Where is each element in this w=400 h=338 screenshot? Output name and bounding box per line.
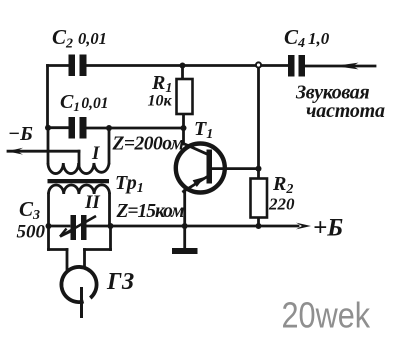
transformer core xyxy=(48,179,110,183)
wire emitter lead diagonal xyxy=(184,176,210,192)
transistor T1 emitter arrowhead xyxy=(193,177,205,187)
svg-text:500: 500 xyxy=(17,222,46,243)
resistor R2 xyxy=(251,179,268,218)
svg-text:−Б: −Б xyxy=(8,123,33,145)
wire bottom line from C3 to +B arrow xyxy=(87,225,299,228)
wire bottom line C3 left segment xyxy=(49,225,70,228)
node primary right xyxy=(106,125,112,131)
generator G3 stem xyxy=(80,287,83,318)
wire top rail right segment to output xyxy=(305,65,375,68)
arrow audio frequency pointing left xyxy=(335,63,359,70)
svg-text:Тр1: Тр1 xyxy=(115,172,144,196)
resistor R1 xyxy=(177,79,193,114)
wire -B tap vertical into primary centre tap xyxy=(78,151,81,164)
wire emitter vertical xyxy=(183,191,186,227)
svg-text:С3: С3 xyxy=(19,197,40,223)
transistor T1 base bar xyxy=(207,150,213,184)
wire top rail left segment xyxy=(48,64,69,67)
node emitter bottom xyxy=(182,223,188,229)
transistor T1 circle xyxy=(176,144,225,193)
wire secondary right lead xyxy=(108,194,111,226)
wire left rail down from top xyxy=(46,66,49,128)
wire C3 box bottom left xyxy=(49,248,68,251)
capacitor C3 arrowhead xyxy=(60,229,71,237)
node R1 top xyxy=(180,63,186,69)
svg-text:220: 220 xyxy=(268,195,295,214)
node C3 left xyxy=(46,223,52,229)
svg-text:20wek: 20wek xyxy=(282,295,371,336)
svg-text:С10,01: С10,01 xyxy=(60,91,108,114)
svg-text:10к: 10к xyxy=(148,93,173,110)
svg-text:I: I xyxy=(91,143,100,164)
arrow +B pointing right xyxy=(296,223,311,230)
wire top rail middle segment xyxy=(87,64,289,67)
capacitor C1 xyxy=(69,117,87,139)
node collector xyxy=(256,166,262,172)
transformer primary winding I xyxy=(48,163,109,174)
generator G3 circle xyxy=(61,267,96,302)
wire secondary left lead xyxy=(47,194,50,226)
svg-text:ГЗ: ГЗ xyxy=(106,269,134,295)
wire right rail from top to R2 xyxy=(257,66,260,179)
svg-text:Т1: Т1 xyxy=(194,118,213,142)
wire C3 box left side down xyxy=(47,226,50,250)
wire base lead diagonal into transistor xyxy=(184,144,209,155)
node C3 right xyxy=(108,223,114,229)
wire C1 to base junction xyxy=(87,127,184,130)
svg-text:II: II xyxy=(84,192,100,213)
capacitor C3 variable xyxy=(71,215,87,240)
arrow -B pointing left xyxy=(7,148,23,155)
wire neck right into G3 xyxy=(83,250,86,267)
svg-text:+Б: +Б xyxy=(313,215,343,242)
wire -B tap horizontal xyxy=(8,150,79,153)
wire neck left into G3 xyxy=(66,250,69,270)
wire emitter to ground xyxy=(183,226,186,248)
capacitor C4 xyxy=(288,55,305,77)
wire R1 top lead xyxy=(181,66,184,80)
wire C3 box right side down xyxy=(109,226,112,250)
wire R1 bottom lead xyxy=(182,114,185,128)
svg-text:R2: R2 xyxy=(272,173,293,197)
capacitor C2 xyxy=(69,55,87,77)
svg-text:частота: частота xyxy=(306,100,385,122)
wire collector lead xyxy=(212,167,259,170)
wire R2 bottom lead xyxy=(257,218,260,227)
svg-text:С20,01: С20,01 xyxy=(52,25,107,52)
svg-text:Z=200ом: Z=200ом xyxy=(112,134,184,155)
svg-text:Z=15ком: Z=15ком xyxy=(116,201,185,222)
node R2 bottom xyxy=(256,223,262,229)
node C1 left xyxy=(45,125,51,131)
wire primary right lead xyxy=(108,128,111,163)
ground symbol xyxy=(172,248,198,254)
transformer secondary winding II xyxy=(49,185,110,194)
wire left rail to primary winding xyxy=(47,128,50,163)
svg-text:С41,0: С41,0 xyxy=(284,25,330,51)
wire C1 left segment xyxy=(48,126,69,129)
node base xyxy=(181,125,187,131)
node C4 branch xyxy=(256,62,261,67)
wire base lead vertical xyxy=(182,128,185,144)
wire C3 box bottom right xyxy=(85,248,111,251)
capacitor C3 adjustment arrow xyxy=(61,216,97,236)
